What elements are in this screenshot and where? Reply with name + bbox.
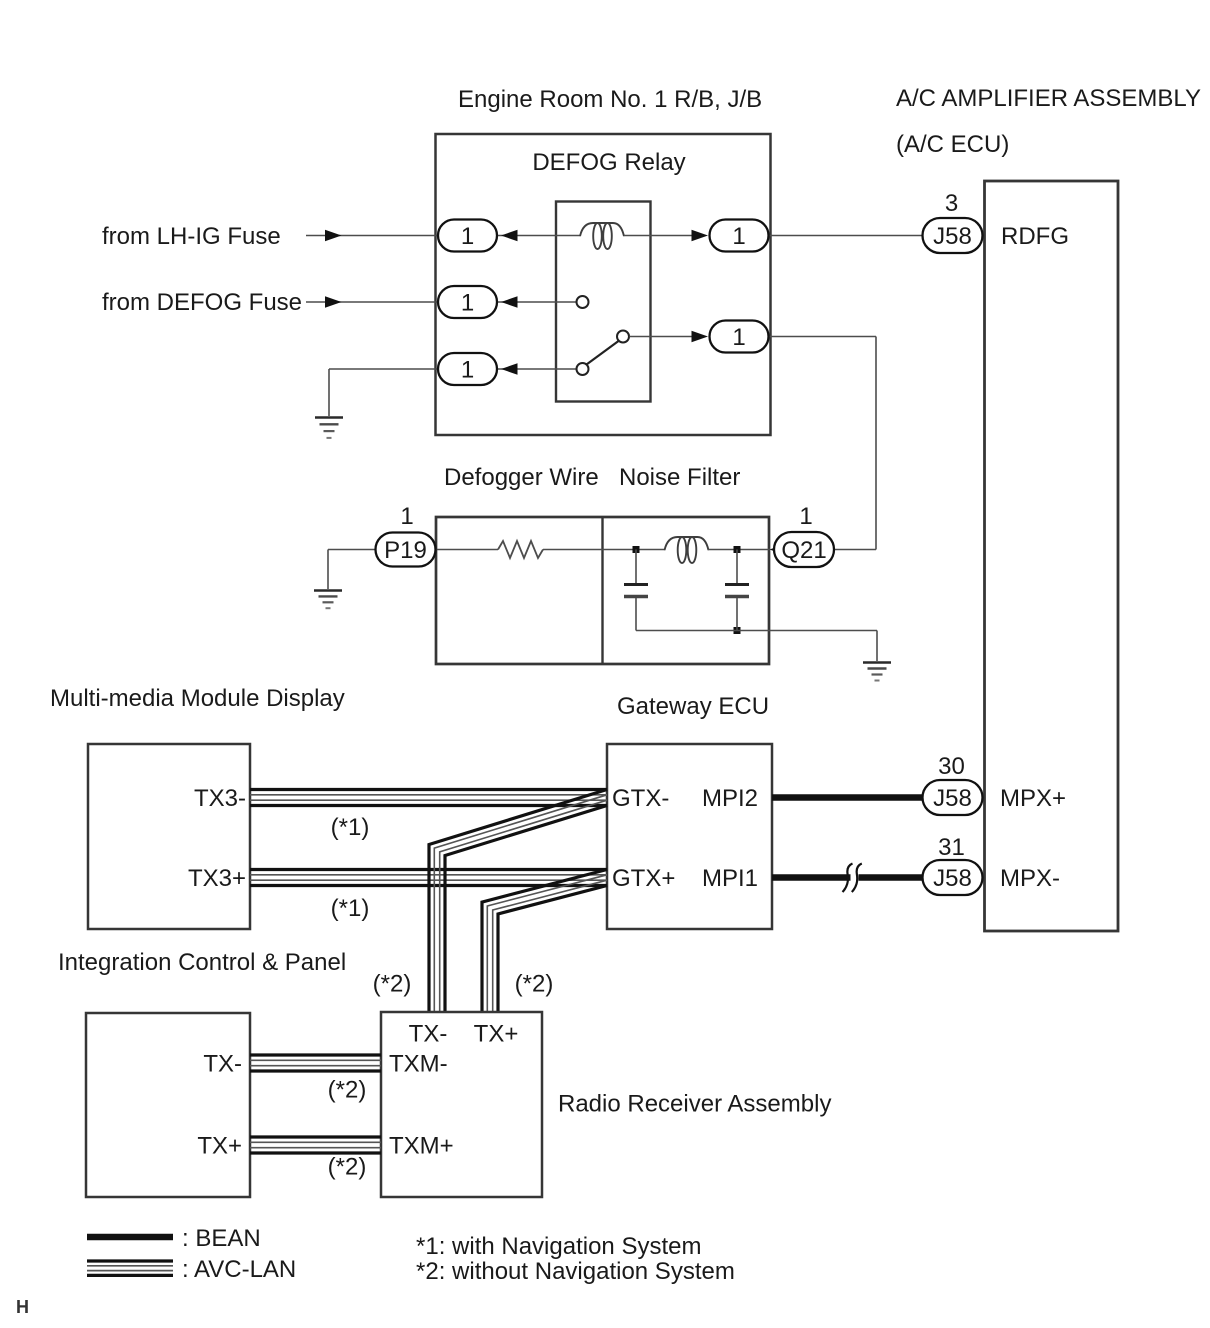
svg-text:1: 1 — [461, 290, 474, 317]
svg-text:A/C AMPLIFIER ASSEMBLY: A/C AMPLIFIER ASSEMBLY — [896, 85, 1201, 112]
svg-text:1: 1 — [461, 357, 474, 384]
svg-text:*2: without Navigation System: *2: without Navigation System — [416, 1258, 735, 1285]
svg-text:from DEFOG Fuse: from DEFOG Fuse — [102, 289, 302, 316]
svg-text:P19: P19 — [384, 537, 427, 564]
svg-text:J58: J58 — [933, 865, 972, 892]
svg-text:RDFG: RDFG — [1001, 223, 1069, 250]
svg-text:(*2): (*2) — [515, 971, 554, 998]
svg-text:MPX+: MPX+ — [1000, 785, 1066, 812]
svg-text:Multi-media Module Display: Multi-media Module Display — [50, 685, 345, 712]
svg-text:Engine Room No. 1 R/B, J/B: Engine Room No. 1 R/B, J/B — [458, 86, 762, 113]
svg-text:TX3-: TX3- — [194, 785, 246, 812]
svg-text:J58: J58 — [933, 223, 972, 250]
svg-text:Q21: Q21 — [781, 537, 826, 564]
svg-text:TX+: TX+ — [197, 1133, 242, 1160]
svg-text:3: 3 — [945, 190, 958, 217]
svg-text:1: 1 — [732, 223, 745, 250]
svg-text:MPI2: MPI2 — [702, 785, 758, 812]
svg-text:Integration Control & Panel: Integration Control & Panel — [58, 949, 346, 976]
svg-text:: BEAN: : BEAN — [182, 1225, 261, 1252]
svg-text:: AVC-LAN: : AVC-LAN — [182, 1256, 296, 1283]
svg-text:Defogger Wire: Defogger Wire — [444, 464, 599, 491]
svg-text:1: 1 — [732, 324, 745, 351]
svg-text:(A/C ECU): (A/C ECU) — [896, 131, 1009, 158]
svg-text:(*1): (*1) — [331, 814, 370, 841]
svg-text:*1: with Navigation System: *1: with Navigation System — [416, 1233, 701, 1260]
svg-text:MPX-: MPX- — [1000, 865, 1060, 892]
svg-text:1: 1 — [799, 503, 812, 530]
svg-text:31: 31 — [938, 834, 965, 861]
svg-text:from LH-IG Fuse: from LH-IG Fuse — [102, 223, 281, 250]
svg-text:Noise Filter: Noise Filter — [619, 464, 740, 491]
svg-text:(*2): (*2) — [328, 1077, 367, 1104]
svg-text:TX-: TX- — [203, 1051, 242, 1078]
svg-text:Radio Receiver Assembly: Radio Receiver Assembly — [558, 1091, 831, 1118]
svg-text:1: 1 — [400, 503, 413, 530]
svg-text:(*2): (*2) — [373, 971, 412, 998]
svg-text:H: H — [16, 1297, 29, 1317]
svg-text:J58: J58 — [933, 785, 972, 812]
svg-text:TX-: TX- — [409, 1021, 448, 1048]
svg-text:DEFOG Relay: DEFOG Relay — [532, 149, 685, 176]
svg-text:TX3+: TX3+ — [188, 865, 246, 892]
svg-text:Gateway ECU: Gateway ECU — [617, 693, 769, 720]
svg-text:GTX+: GTX+ — [612, 865, 675, 892]
svg-text:(*1): (*1) — [331, 895, 370, 922]
svg-text:(*2): (*2) — [328, 1154, 367, 1181]
svg-text:TX+: TX+ — [474, 1021, 519, 1048]
svg-text:1: 1 — [461, 223, 474, 250]
svg-text:TXM+: TXM+ — [389, 1133, 454, 1160]
svg-text:GTX-: GTX- — [612, 785, 669, 812]
svg-text:TXM-: TXM- — [389, 1051, 448, 1078]
svg-text:MPI1: MPI1 — [702, 865, 758, 892]
svg-text:30: 30 — [938, 753, 965, 780]
